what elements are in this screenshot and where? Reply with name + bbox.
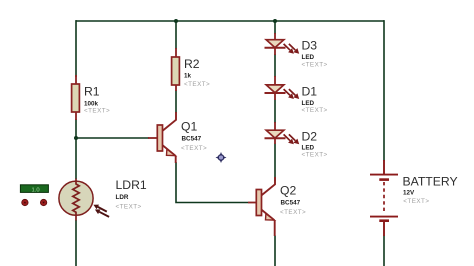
svg-text:<TEXT>: <TEXT> — [302, 152, 328, 159]
svg-text:BATTERY: BATTERY — [403, 175, 458, 189]
wire left rail lower — [75, 220, 77, 266]
D2 anode pin — [274, 122, 276, 130]
svg-text:R2: R2 — [184, 57, 200, 71]
LDR actuator up button — [22, 199, 28, 205]
resistor R2 pins — [175, 48, 177, 91]
D3 triangle — [266, 40, 284, 48]
LDR1 light arrows — [93, 205, 109, 217]
wire left rail upper — [75, 20, 77, 77]
node junction dot LED top — [273, 19, 277, 23]
origin crosshair marker — [216, 152, 227, 163]
wire R2 to Q1 collector — [175, 90, 177, 113]
transistor Q1 — [148, 112, 176, 163]
Q1 collector pin — [162, 112, 176, 131]
svg-text:100k: 100k — [84, 100, 99, 107]
battery dashed cell link — [383, 182, 385, 212]
resistor R1 pins — [75, 75, 77, 120]
svg-text:BC547: BC547 — [281, 199, 301, 206]
wire D1 to D2 — [274, 100, 276, 124]
LED D3 — [265, 33, 300, 55]
D1 triangle — [266, 85, 284, 93]
LDR1 body circle — [59, 181, 93, 215]
svg-text:D3: D3 — [302, 39, 318, 53]
svg-text:<TEXT>: <TEXT> — [403, 198, 429, 205]
D3 anode pin — [274, 33, 276, 40]
D2 triangle — [266, 130, 284, 138]
svg-text:LED: LED — [302, 54, 315, 61]
battery bottom pin — [383, 222, 385, 237]
svg-text:D1: D1 — [302, 85, 318, 99]
svg-text:<TEXT>: <TEXT> — [184, 81, 210, 88]
svg-text:LDR1: LDR1 — [116, 178, 147, 192]
wire D3 to D1 — [274, 54, 276, 77]
Q1 emitter pin — [162, 145, 176, 163]
svg-text:1.0: 1.0 — [32, 187, 40, 193]
wire Q1 emitter to Q2 base — [176, 162, 248, 203]
svg-text:1k: 1k — [184, 73, 192, 80]
transistor Q2 — [248, 177, 275, 236]
wire D2 to Q2 collector — [274, 144, 276, 182]
svg-text:LED: LED — [302, 144, 315, 151]
wire R2 branch upper — [175, 20, 177, 49]
LDR1 zigzag element — [73, 179, 79, 221]
LED D1 — [265, 76, 300, 100]
svg-text:<TEXT>: <TEXT> — [302, 62, 328, 69]
Q1 base bar — [157, 125, 162, 151]
svg-text:<TEXT>: <TEXT> — [84, 108, 110, 115]
wire top rail — [75, 20, 384, 266]
node junction dot left rail base — [74, 136, 78, 140]
svg-text:D2: D2 — [302, 129, 318, 143]
LDR1 — [59, 179, 109, 221]
resistor R1 body — [72, 84, 80, 112]
D3 cathode pin — [274, 48, 276, 55]
wire Q2 emitter down — [274, 236, 276, 266]
battery top pin — [383, 160, 385, 174]
D2 cathode pin — [274, 139, 276, 145]
wire LED branch top — [274, 20, 276, 34]
Q1 base pin — [148, 137, 157, 139]
D1 cathode bar — [265, 92, 286, 94]
D2 emission arrows — [284, 134, 300, 144]
battery plate short top — [379, 178, 389, 181]
LED D2 — [265, 122, 300, 144]
battery plate long top — [370, 174, 398, 176]
svg-text:12V: 12V — [403, 190, 415, 197]
wire battery top — [383, 20, 385, 161]
D3 emission arrows — [284, 44, 300, 54]
LDR actuator value box — [20, 185, 48, 194]
svg-text:R1: R1 — [84, 84, 100, 98]
Q2 emitter pin — [261, 209, 275, 236]
svg-text:<TEXT>: <TEXT> — [181, 145, 207, 152]
Q2 collector pin — [261, 177, 275, 196]
Q2 emitter arrowhead — [266, 214, 275, 220]
svg-text:BC547: BC547 — [182, 135, 202, 142]
wire battery bottom — [383, 236, 385, 266]
D3 cathode bar — [265, 47, 286, 49]
svg-text:LED: LED — [302, 100, 315, 107]
node junction dot R2 top — [174, 19, 178, 23]
Q2 base pin — [248, 202, 257, 204]
D2 cathode bar — [265, 137, 286, 139]
svg-text:<TEXT>: <TEXT> — [302, 107, 328, 114]
resistor R2 body — [172, 57, 180, 85]
wire left rail mid — [75, 119, 77, 179]
battery plate short bottom — [379, 219, 389, 222]
Q1 emitter arrowhead — [167, 149, 176, 155]
battery plate long bottom — [370, 216, 398, 218]
svg-text:<TEXT>: <TEXT> — [116, 203, 142, 210]
LDR actuator down button — [40, 199, 46, 205]
Q2 base bar — [256, 190, 261, 216]
wire Q1 base from left rail — [75, 137, 149, 139]
svg-text:<TEXT>: <TEXT> — [280, 209, 306, 216]
svg-text:Q2: Q2 — [280, 184, 296, 198]
D1 cathode pin — [274, 93, 276, 100]
D1 anode pin — [274, 76, 276, 85]
D1 emission arrows — [284, 89, 300, 99]
svg-text:LDR: LDR — [116, 194, 129, 201]
svg-text:Q1: Q1 — [181, 120, 197, 134]
